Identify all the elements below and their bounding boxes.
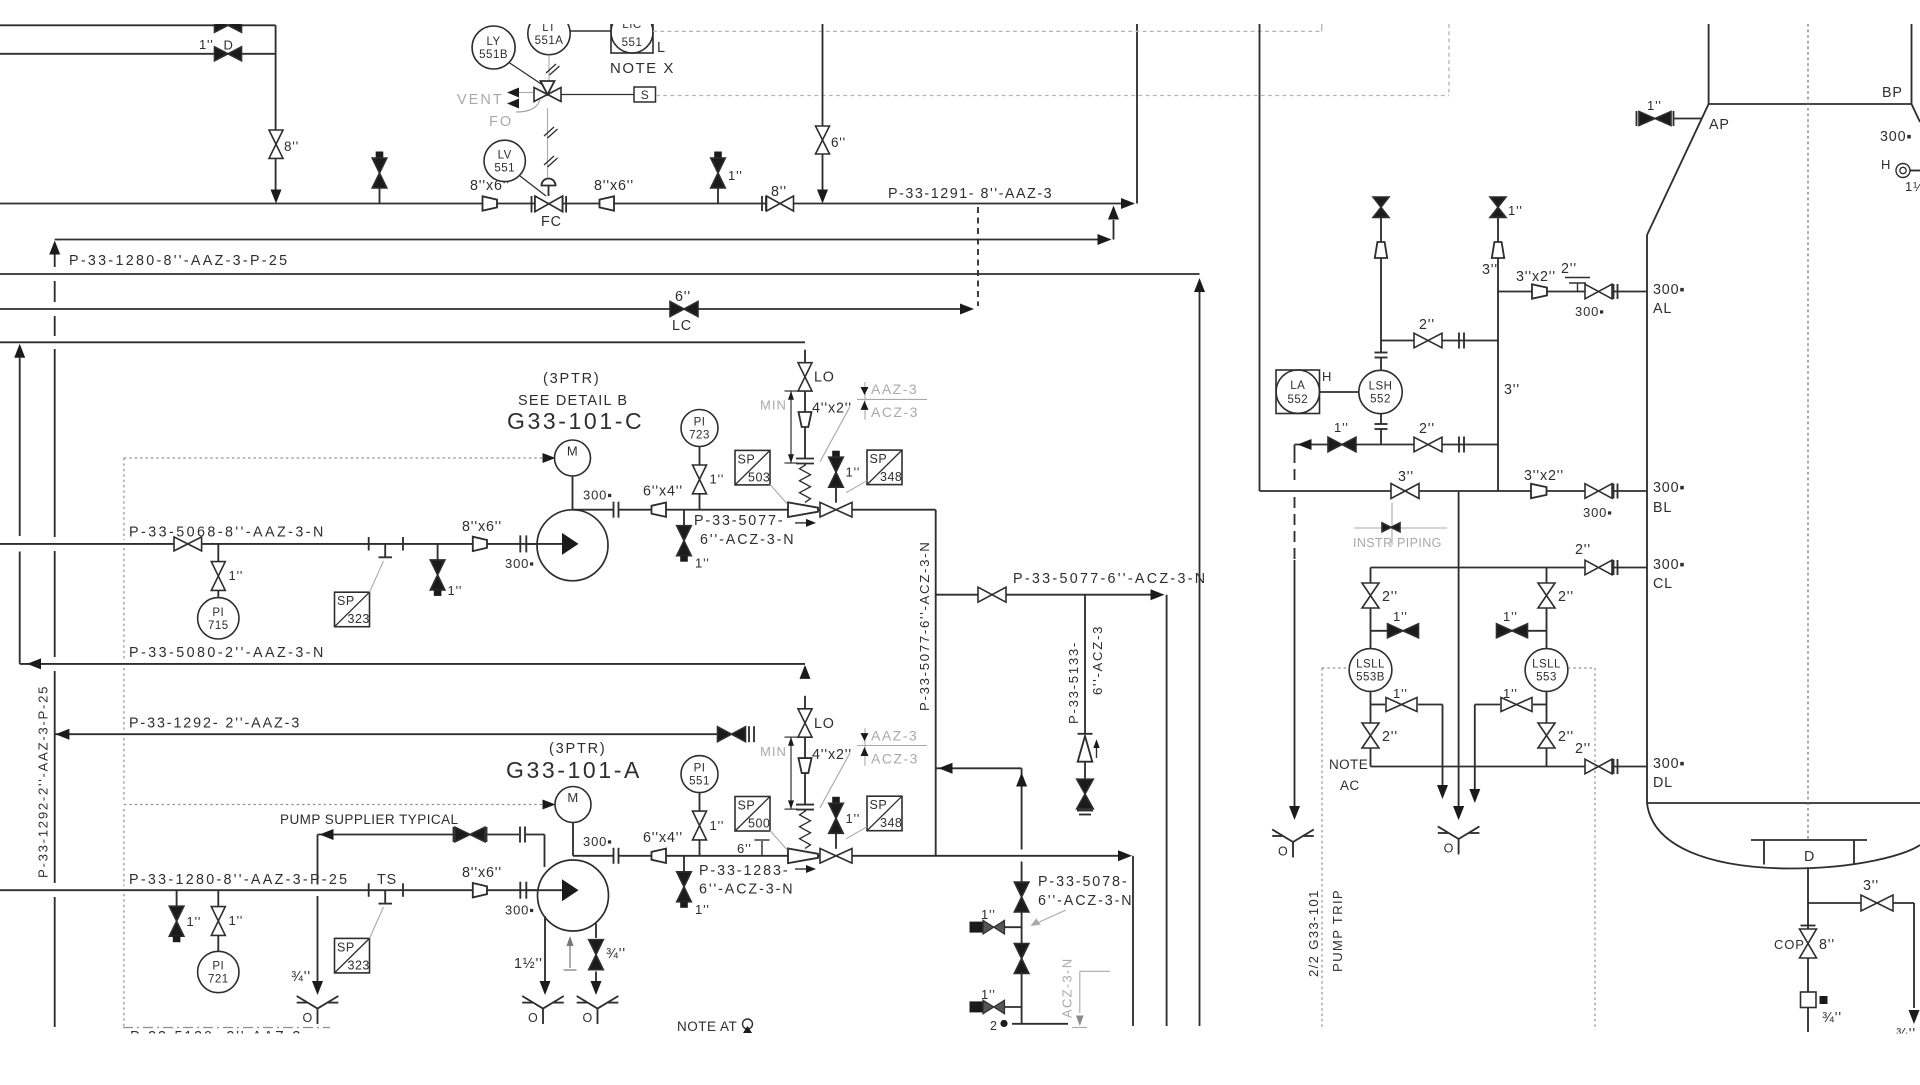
arrow 5080 left [27,658,41,669]
svg-text:O: O [583,1011,593,1025]
svg-text:PUMP TRIP: PUMP TRIP [1330,889,1345,972]
svg-text:8'': 8'' [771,184,787,200]
valve 1'' drain under discharge [683,510,685,526]
strainer tee A [384,890,386,903]
break suction flange C [519,535,521,552]
svg-text:AAZ-3: AAZ-3 [871,381,918,397]
svg-text:G33-101-A: G33-101-A [506,757,642,783]
svg-text:6'': 6'' [737,841,752,856]
instrument PI-721 [198,951,239,992]
svg-text:723: 723 [689,430,710,442]
valve 1'' AP (filled) [1636,111,1638,126]
wire drop right edge [1913,903,1915,1008]
valve 3'' BL [1391,484,1419,499]
wire P-33-1292 [55,733,718,735]
wire signal 3way to LV [547,108,549,178]
valve 1-D lower (filled) [215,47,242,61]
svg-text:LSLL: LSLL [1356,659,1385,671]
cross line 2 [1295,444,1329,446]
wire suction P-33-1280 pump A [0,889,537,891]
wire line y=309 [0,308,961,310]
svg-text:AC: AC [1340,778,1360,793]
svg-text:TS: TS [377,872,397,888]
svg-text:6''-ACZ-3-N: 6''-ACZ-3-N [700,532,795,548]
svg-text:6'': 6'' [675,289,691,305]
venturi flow element [788,849,818,864]
arrow branch up x=19.7 [14,344,25,358]
arrow 5077 end [1151,589,1165,600]
valve LO min flow [798,709,812,737]
arrow line309 end [960,304,974,315]
vessel right slant [1912,104,1920,122]
actuator LV-551 dome [542,179,556,186]
signal dashed S to right [656,95,1449,97]
svg-text:LO: LO [814,370,835,386]
svg-text:300▪: 300▪ [1653,480,1685,496]
gray vent arrow [569,942,571,968]
valve 1'' left vent (filled) [1371,630,1388,632]
svg-text:G33-101-C: G33-101-C [507,408,644,434]
svg-text:O: O [528,1011,538,1025]
valve 3'' drain [1861,895,1893,911]
svg-text:6''-ACZ-3-N: 6''-ACZ-3-N [1038,893,1133,909]
blind end 5133 [1077,810,1093,812]
wire top pipe line 1 [0,24,276,26]
wire riser segments [804,427,806,459]
svg-text:6'': 6'' [831,135,846,150]
valve 2'' BL [1585,484,1612,499]
wire LA to LSH [1320,391,1359,393]
valve 2'' cross2 [1414,437,1442,452]
svg-text:8''x6'': 8''x6'' [462,865,502,881]
wire signal LT to 3-way [548,55,550,81]
svg-text:500: 500 [748,817,770,831]
signal dotted to M pump C [124,457,549,459]
svg-text:P-33-5077-6''-ACZ-3-N: P-33-5077-6''-ACZ-3-N [1013,571,1207,587]
valve 1'' bonnet vent [832,797,840,804]
svg-text:P-33-1292- 2''-AAZ-3: P-33-1292- 2''-AAZ-3 [129,716,301,732]
svg-text:VENT: VENT [457,92,504,108]
wire LT to LIC [570,30,611,32]
valve 1'' drain (filled) suction A [176,890,178,906]
wire instrument drain x=1294.5 [1294,445,1296,453]
svg-text:2'': 2'' [1558,729,1574,745]
arrow 6 line to header [817,190,828,204]
reducer 8x6 right [600,196,615,210]
svg-text:P-33-1291- 8''-AAZ-3: P-33-1291- 8''-AAZ-3 [888,186,1053,202]
break 1292 end [748,726,750,742]
valve 1'' PI isolation [693,811,707,840]
svg-text:P-33-5133-: P-33-5133- [1066,641,1081,724]
arrow riser up into 1280 [49,241,60,255]
reducer 8x6 left [483,196,498,210]
break tick b A [402,883,404,897]
svg-text:1'': 1'' [846,811,861,826]
venturi flow element [788,502,818,517]
svg-text:1'': 1'' [1647,98,1662,113]
vessel neck right [1911,24,1913,104]
signal dotted pump trip left [1322,667,1348,669]
spec break AAZ-3/ACZ-3 [864,728,866,766]
svg-text:2'': 2'' [1382,729,1398,745]
vent riser 1 top [1373,197,1389,217]
check relief on 5133 [1078,733,1093,735]
valve 1'' vent a on 5078 [970,922,984,933]
vessel bottom dish [1647,803,1920,869]
svg-text:AL: AL [1653,301,1672,317]
svg-text:NOTE AT: NOTE AT [677,1019,737,1034]
valve 2'' CL [1585,560,1612,575]
instrument LT-551A [528,12,570,54]
svg-text:D: D [224,38,234,53]
wire riser2 to BL line [1497,445,1499,492]
wire suction P-33-5068 [0,543,537,545]
instrument LIC-551 box [611,11,653,53]
vent riser 2 top [1490,197,1506,217]
svg-text:300▪: 300▪ [505,903,535,918]
svg-text:2'': 2'' [1575,741,1591,757]
valve 1'' cross2 (filled) [1328,437,1356,452]
dimension MIN [790,391,792,463]
reducer 8x6 suction A [473,883,487,897]
svg-text:COP: COP [1774,937,1805,952]
motor M pump C [572,476,574,510]
break tick a [368,537,370,551]
reducer 6x4 discharge [652,849,667,863]
instrument PI pressure gauge [681,756,718,793]
flange pair on riser [796,804,814,806]
arrow 1280 right end [1098,234,1112,245]
valve vent cap 1'' x=718 [714,152,722,159]
valve 1'' PI-721 root [217,890,219,907]
crop cover bottom [0,1034,1920,1081]
vessel centerline dotted [1807,24,1809,840]
svg-text:300▪: 300▪ [1583,505,1613,520]
svg-text:551: 551 [689,776,710,788]
svg-text:551A: 551A [535,35,564,47]
svg-text:SP: SP [870,452,888,466]
arrow vent b [507,99,519,109]
svg-text:P-33-5078-: P-33-5078- [1038,874,1129,890]
svg-text:ACZ-3: ACZ-3 [871,404,919,420]
svg-text:L: L [657,40,666,56]
wire vessel drain [1807,869,1809,904]
wire P-33-5080 [20,663,805,665]
valve on 5133 end (filled) [1077,779,1094,809]
svg-text:8''x6'': 8''x6'' [462,519,502,535]
valve 1'' drain suction C [437,544,439,560]
signal dashed LIC to right [653,30,1322,32]
svg-text:300▪: 300▪ [1880,129,1912,145]
pump G33-101-A casing [538,860,609,931]
svg-text:553B: 553B [1356,672,1385,684]
svg-text:323: 323 [348,958,370,972]
wire right leg x=1546.5 [1546,568,1548,584]
signal dotted pump trip right [1568,667,1595,669]
svg-text:NOTE: NOTE [1329,757,1368,772]
wire seal flush line y=834.5 [318,834,456,836]
svg-text:8'': 8'' [1819,937,1835,953]
valve 2'' AL [1585,284,1612,299]
wire drop x=1166.6 [1166,595,1168,1026]
svg-text:3'': 3'' [1398,469,1414,485]
svg-text:LO: LO [814,716,835,732]
svg-text:300▪: 300▪ [505,556,535,571]
valve 5078 lower (filled) [1014,944,1029,974]
valve 1'' PI isolation [693,465,707,494]
arrow discharge A end [1118,850,1132,861]
nozzle CL line [1371,567,1587,569]
wire leader LY551B [509,63,543,86]
wire seal drop to pump [544,835,546,868]
svg-text:1'': 1'' [981,907,996,922]
wire vertical drop x=275.6 [275,25,277,130]
valve 1'' vent b on 5078 [970,1001,984,1012]
svg-text:300▪: 300▪ [1653,557,1685,573]
svg-text:P-33-1283-: P-33-1283- [699,863,790,879]
instrument LV-551 [484,140,525,181]
svg-text:300▪: 300▪ [1653,756,1685,772]
reducer 3x2 AL [1532,284,1547,298]
valve min-flow control [820,502,852,517]
valve 8'' suction [174,537,202,551]
svg-text:PIPING: PIPING [1397,536,1442,550]
svg-text:2'': 2'' [1558,589,1574,605]
wire main header P-33-1291 [0,203,1124,205]
svg-text:300▪: 300▪ [583,488,613,503]
arrow 5078 into drop [939,763,953,774]
wire riser x=822 [822,24,824,126]
svg-text:1'': 1'' [846,465,861,480]
valve 1'' right drain [1475,704,1500,706]
svg-text:P-33-1280-8''-AAZ-3-P-25: P-33-1280-8''-AAZ-3-P-25 [69,253,289,269]
svg-text:SEE DETAIL B: SEE DETAIL B [518,393,628,409]
strainer tee [384,544,386,557]
svg-text:P-33-1292-2''-AAZ-3-P-25: P-33-1292-2''-AAZ-3-P-25 [36,685,51,878]
wire min flow header y=342 [0,341,805,343]
svg-text:LSLL: LSLL [1532,659,1561,671]
break pump discharge flange [613,502,615,518]
valve 1-D upper (filled) [215,18,242,32]
svg-text:1¼: 1¼ [1905,179,1920,194]
break suction flange A [519,882,521,899]
svg-text:300▪: 300▪ [1653,282,1685,298]
svg-text:H: H [1881,157,1891,172]
node dashed branch x=978 [977,207,979,306]
svg-text:D: D [1804,849,1815,865]
svg-text:2'': 2'' [1561,261,1577,277]
dimension MIN [790,737,792,809]
svg-text:2'': 2'' [1382,589,1398,605]
svg-text:LA: LA [1290,380,1305,392]
break tick b [402,537,404,551]
flange riser1 upper [1375,352,1388,354]
svg-text:8'': 8'' [284,139,299,154]
valve LV-551 globe [531,196,533,213]
svg-text:P-33-5068-8''-AAZ-3-N: P-33-5068-8''-AAZ-3-N [129,525,326,541]
svg-text:1'': 1'' [1393,686,1408,701]
valve 5078 upper (filled) [1014,882,1029,912]
arrow into header [271,190,282,204]
svg-text:715: 715 [208,620,229,632]
wire center dropper x=1458.6 [1458,491,1460,806]
svg-text:6''-ACZ-3: 6''-ACZ-3 [1090,625,1105,695]
svg-text:¾'': ¾'' [291,969,311,985]
svg-text:2'': 2'' [1419,317,1435,333]
funnel bridle drains [1453,806,1464,820]
svg-text:3''x2'': 3''x2'' [1516,269,1556,285]
signal dashed vertical x=1449 [1448,24,1450,96]
cross line 1 [1381,340,1414,342]
SP-323 instrument C [335,592,370,627]
svg-text:1'': 1'' [695,902,710,917]
svg-text:6''x4'': 6''x4'' [643,484,683,500]
svg-text:552: 552 [1287,394,1308,406]
svg-text:MIN: MIN [760,398,787,413]
svg-text:SP: SP [870,798,888,812]
fitting sample connection [1801,992,1817,1008]
wire discharge C to corner [573,509,614,511]
svg-text:1'': 1'' [199,37,214,52]
arrow 1292 into riser [55,729,69,740]
svg-text:O: O [1278,844,1288,858]
svg-text:PI: PI [694,417,706,429]
svg-text:LC: LC [672,318,692,334]
svg-text:1'': 1'' [728,168,743,183]
valve COP 8'' [1801,925,1816,927]
drain 1.5in pump A [544,916,546,981]
svg-text:LY: LY [486,36,500,48]
valve 8'' vertical [269,130,283,158]
svg-text:1'': 1'' [1508,203,1523,218]
svg-text:O: O [1444,841,1454,855]
svg-text:1'': 1'' [229,568,244,583]
svg-text:551: 551 [622,37,643,49]
nozzle AL line [1498,291,1532,293]
wire P-33-5133 drop [1084,595,1086,734]
svg-text:LSH: LSH [1369,381,1393,393]
valve vent cap x=378 [376,152,384,159]
svg-text:PI: PI [694,763,706,775]
arrow vent a [507,88,519,98]
arrow pump A minflow riser top [800,665,811,679]
svg-text:1'': 1'' [187,914,202,929]
svg-text:2: 2 [990,1019,998,1033]
drain .75in pump A [595,924,597,939]
spec break AAZ-3/ACZ-3 [864,382,866,420]
svg-text:SP: SP [337,940,355,954]
svg-text:¾'': ¾'' [606,946,626,962]
svg-text:DL: DL [1653,775,1673,791]
flange pair on riser [796,458,814,460]
valve 1'' drain under discharge [683,856,685,872]
SP-323 instrument A [335,938,370,973]
svg-text:CL: CL [1653,576,1673,592]
valve 2'' left upper [1362,583,1379,608]
svg-text:2/2 G33-101: 2/2 G33-101 [1306,889,1321,977]
svg-text:¾'': ¾'' [1822,1010,1842,1026]
valve 2'' DL [1585,759,1612,774]
svg-text:BP: BP [1882,85,1903,101]
wire line y=274 [0,273,1200,275]
svg-text:551B: 551B [479,49,508,61]
svg-text:1'': 1'' [981,987,996,1002]
svg-text:ACZ-3-N: ACZ-3-N [1060,958,1075,1018]
valve LO min flow [798,363,812,391]
spring above valve [800,811,811,848]
svg-text:NOTE X: NOTE X [610,60,675,77]
reducer 4x2 vertical [799,412,812,427]
wire P-33-1280 line [55,239,1099,241]
svg-text:SP: SP [337,594,355,608]
flange riser1 lower [1380,414,1382,424]
wire riser x=1200 down [1199,292,1201,1026]
valve seal flush (filled) [453,827,455,842]
svg-text:1'': 1'' [229,913,244,928]
svg-text:551: 551 [494,162,515,174]
svg-text:323: 323 [348,612,370,626]
nozzle BL line [1260,490,1392,492]
valve min-flow control [820,849,852,864]
svg-text:P-33-1280-8''-AAZ-3-P-25: P-33-1280-8''-AAZ-3-P-25 [129,872,349,888]
valve 1'' PI-715 root [217,544,219,562]
svg-text:1'': 1'' [1393,609,1408,624]
wire 5078 riser [1021,768,1023,849]
wire riser2 mid [1497,292,1499,445]
svg-text:1'': 1'' [710,472,725,487]
svg-text:SP: SP [738,799,756,813]
svg-text:6''-ACZ-3-N: 6''-ACZ-3-N [699,882,794,898]
signal dotted to M pump A [124,804,549,806]
instrument LSLL-553 [1525,649,1568,692]
wire discharge drop x=935.7 [935,510,937,856]
svg-text:6''x4'': 6''x4'' [643,830,683,846]
svg-text:553: 553 [1536,672,1557,684]
svg-text:P-33-5080-2''-AAZ-3-N: P-33-5080-2''-AAZ-3-N [129,645,326,661]
svg-text:8''x6'': 8''x6'' [594,178,634,194]
wire seal vert x=317.5 [317,835,319,885]
wire left leg x=1370.5 [1370,568,1372,584]
svg-text:503: 503 [748,470,770,484]
vessel left slant [1647,104,1709,235]
instrument LA-552 [1276,370,1320,414]
svg-text:FC: FC [541,214,562,230]
svg-text:1'': 1'' [695,556,710,571]
valve 2'' right lower [1538,723,1555,748]
valve 2'' left lower [1362,723,1379,748]
svg-text:H: H [1322,369,1332,384]
svg-text:LV: LV [498,149,512,161]
instrument LSH-552 [1359,370,1402,413]
svg-text:S: S [641,88,649,102]
break cross2 [1458,437,1460,453]
wire riser x=1259.5 [1259,24,1261,491]
svg-text:1'': 1'' [710,818,725,833]
arrow up x=1200 [1194,278,1205,292]
arrow under venturi [795,868,808,870]
svg-text:3''x2'': 3''x2'' [1524,468,1564,484]
svg-text:P-33-5077-6''-ACZ-3-N: P-33-5077-6''-ACZ-3-N [917,541,932,711]
valve 6'' LC [670,302,698,317]
reducer 3x2 BL [1531,484,1547,498]
arrow header end [1121,198,1135,209]
valve 8'' gate on header [761,196,763,211]
wire branch x=19.7 [19,358,21,536]
wire left drain drop [1442,705,1444,786]
svg-text:M: M [567,790,578,805]
break cross1 [1458,333,1460,349]
svg-text:(3PTR): (3PTR) [543,371,601,387]
